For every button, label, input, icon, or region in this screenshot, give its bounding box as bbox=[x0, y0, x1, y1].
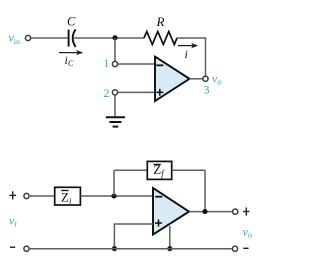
wire junction to node 1 bbox=[114, 38, 116, 61]
terminal vi minus bbox=[24, 246, 29, 251]
capacitor label C bbox=[67, 15, 76, 29]
terminal vin bbox=[25, 35, 30, 40]
wire op-amp output to vo bbox=[189, 211, 233, 213]
impedance Zf bbox=[147, 161, 171, 179]
node vo bottom label bbox=[243, 225, 253, 240]
terminal vo minus bbox=[232, 246, 237, 251]
node vo label bbox=[212, 72, 222, 87]
svg-text:vo: vo bbox=[212, 72, 222, 87]
node 3 label bbox=[204, 83, 210, 97]
svg-text:i: i bbox=[185, 47, 188, 61]
resistor label R bbox=[156, 14, 165, 29]
wire op-amp plus to common bbox=[114, 224, 153, 249]
minus sign input bottom bbox=[10, 246, 15, 248]
junction Zi node bbox=[111, 193, 116, 198]
node 1 label bbox=[104, 56, 110, 70]
node 2 label bbox=[104, 86, 110, 100]
plus sign input bottom circuit bbox=[10, 191, 17, 199]
junction output feedback bbox=[202, 209, 207, 214]
impedance Zi bbox=[55, 187, 81, 205]
svg-text:vin: vin bbox=[9, 31, 20, 46]
ground bbox=[106, 117, 125, 126]
wire capacitor to resistor bbox=[74, 37, 144, 39]
terminal node 1 bbox=[112, 61, 117, 66]
svg-text:R: R bbox=[156, 14, 165, 29]
svg-text:C: C bbox=[67, 15, 76, 29]
plus sign output bbox=[243, 208, 249, 216]
current arrow i bbox=[178, 43, 198, 48]
wire vin to capacitor bbox=[31, 37, 68, 39]
node vin label bbox=[9, 31, 20, 46]
wire node 2 to op-amp plus bbox=[118, 91, 155, 93]
junction plus common bbox=[112, 246, 117, 251]
wire node 2 to ground bbox=[114, 95, 116, 117]
wire op-amp body to common bbox=[169, 226, 171, 249]
capacitor C bbox=[69, 29, 76, 47]
current label i bbox=[185, 47, 188, 61]
svg-text:2: 2 bbox=[104, 86, 110, 100]
terminal node 3 bbox=[203, 76, 208, 81]
svg-text:vi: vi bbox=[9, 213, 17, 228]
svg-text:3: 3 bbox=[204, 83, 210, 97]
node vi label bbox=[9, 213, 17, 228]
junction body common bbox=[167, 246, 172, 251]
svg-text:iC: iC bbox=[65, 53, 74, 68]
terminal vi plus bbox=[24, 193, 29, 198]
current arrow iC bbox=[59, 50, 83, 55]
terminal vo plus bbox=[233, 209, 238, 214]
wire op-amp output to node 3 bbox=[190, 78, 203, 80]
wire Zi to op-amp minus bbox=[80, 195, 153, 197]
wire junction up to feedback bbox=[113, 170, 115, 196]
op-amp U2 bbox=[153, 188, 189, 235]
junction node 1 top bbox=[112, 35, 117, 40]
wire feedback right bbox=[172, 170, 205, 211]
current label iC bbox=[65, 53, 74, 68]
resistor R bbox=[144, 32, 177, 45]
op-amp U1 bbox=[155, 57, 190, 101]
wire resistor to corner bbox=[177, 38, 206, 76]
svg-text:1: 1 bbox=[104, 56, 110, 70]
terminal node 2 bbox=[112, 90, 117, 95]
wire vi to Zi box bbox=[29, 195, 55, 197]
wire common rail bbox=[29, 248, 232, 250]
wire feedback left bbox=[114, 169, 147, 171]
svg-text:vo: vo bbox=[243, 225, 253, 240]
wire node 1 to op-amp minus bbox=[118, 63, 155, 65]
minus sign output bbox=[243, 247, 248, 249]
